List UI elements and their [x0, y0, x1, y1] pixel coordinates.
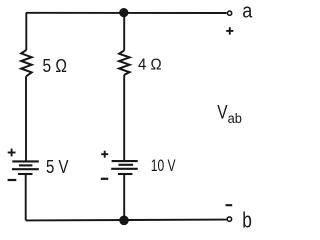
plus sign battery V2	[101, 151, 108, 158]
resistor R2 4 ohm	[119, 51, 130, 75]
minus sign battery V1	[8, 179, 17, 181]
svg-text:b: b	[242, 208, 252, 233]
minus sign battery V2	[101, 178, 109, 180]
svg-text:4 Ω: 4 Ω	[138, 57, 162, 74]
battery V2 10V plates	[111, 161, 138, 174]
svg-text:V: V	[217, 103, 228, 124]
svg-text:a: a	[242, 0, 253, 23]
resistor R1 5 ohm	[21, 50, 32, 76]
wire: left vertical lower	[25, 174, 27, 220]
wire: middle vertical upper	[123, 13, 125, 51]
terminal a	[228, 11, 232, 15]
plus sign at terminal a	[226, 27, 233, 34]
wire: middle vertical center	[123, 75, 125, 161]
plus sign battery V1	[8, 149, 16, 157]
wire: bottom rail	[26, 219, 227, 222]
svg-text:5 Ω: 5 Ω	[43, 56, 68, 76]
svg-text:ab: ab	[228, 111, 242, 126]
node: bottom junction	[119, 216, 129, 226]
svg-text:10 V: 10 V	[151, 157, 176, 175]
terminal b	[227, 217, 231, 221]
wire: left vertical middle	[25, 76, 27, 161]
wire: middle vertical lower	[123, 174, 125, 220]
battery V1 5V plates	[12, 161, 39, 174]
svg-text:5 V: 5 V	[46, 157, 68, 177]
wire: top rail from node a side	[26, 12, 227, 14]
minus sign at terminal b	[226, 204, 233, 206]
wire: left vertical upper	[25, 13, 27, 50]
node: top junction	[119, 8, 128, 17]
